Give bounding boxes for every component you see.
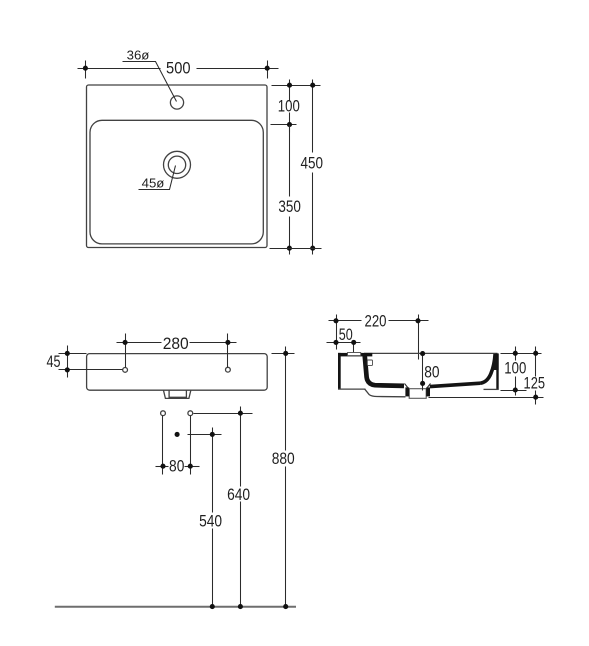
- bracket top notch: [348, 353, 361, 356]
- dim 125: [535, 347, 537, 377]
- wall fixing point: [175, 432, 180, 437]
- svg-text:640: 640: [227, 486, 250, 504]
- fixing hole right: [226, 367, 231, 372]
- rim line (section): [364, 352, 498, 354]
- svg-text:45: 45: [47, 353, 61, 371]
- overflow notch: [367, 360, 372, 365]
- tap hole 36ø: [170, 96, 183, 109]
- wall hole right: [188, 411, 193, 416]
- floor line: [55, 606, 296, 608]
- svg-text:450: 450: [301, 155, 324, 173]
- svg-text:50: 50: [339, 326, 353, 344]
- bowl right wall section: [481, 354, 496, 383]
- top extension line: [272, 85, 321, 87]
- svg-text:280: 280: [163, 335, 189, 353]
- waste trap fitting (front): [163, 390, 191, 398]
- dim 220: [329, 320, 362, 322]
- dim 640: [194, 413, 253, 415]
- waste outlet 45ø outer: [164, 151, 191, 178]
- waste trap (section): [409, 389, 426, 399]
- basin wall + bowl section (left): [365, 354, 404, 386]
- svg-text:350: 350: [278, 198, 301, 216]
- dim 45: [67, 346, 69, 378]
- svg-text:125: 125: [524, 375, 546, 393]
- dim 540: [188, 434, 222, 436]
- bracket left edge: [338, 353, 341, 389]
- dim 80 front: [162, 416, 164, 475]
- wall hole left: [161, 411, 166, 416]
- basin front outline: [87, 354, 268, 391]
- svg-text:500: 500: [166, 60, 191, 78]
- dim 100: [289, 80, 291, 101]
- bracket top bar: [338, 353, 372, 357]
- basin inner bowl (plan): [90, 120, 263, 244]
- basin outer rim (plan): [87, 85, 268, 248]
- svg-text:36ø: 36ø: [127, 47, 150, 62]
- svg-text:540: 540: [199, 513, 222, 531]
- bracket bottom line: [338, 388, 366, 390]
- svg-text:220: 220: [365, 312, 387, 330]
- dim 350: [289, 125, 291, 197]
- svg-text:100: 100: [278, 98, 300, 116]
- dim 500: [78, 68, 161, 70]
- fixing hole left: [123, 368, 128, 373]
- svg-text:880: 880: [272, 450, 295, 468]
- extension lines right: [501, 353, 542, 355]
- svg-text:80: 80: [424, 364, 439, 382]
- dim 450: [312, 80, 314, 153]
- svg-text:80: 80: [169, 458, 184, 476]
- svg-text:45ø: 45ø: [142, 176, 165, 191]
- dim 80 side: [422, 354, 424, 391]
- waste outlet 45ø inner: [168, 156, 185, 173]
- dim 280: [117, 342, 162, 344]
- dim 880: [272, 353, 295, 355]
- bottom extension line: [270, 248, 322, 250]
- dim 50: [327, 342, 361, 344]
- bowl bottom band (right): [430, 383, 481, 386]
- dim 100: [515, 347, 517, 361]
- outer shell line (left): [365, 389, 406, 397]
